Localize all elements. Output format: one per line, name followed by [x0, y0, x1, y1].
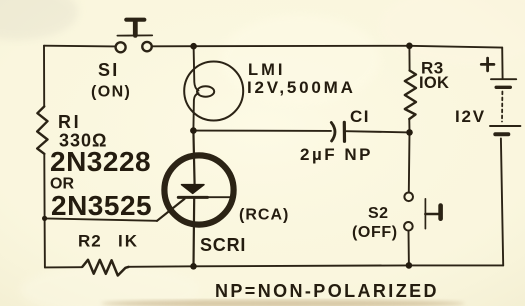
battery B1 plate 2 short thick: [496, 86, 510, 89]
wire: right rail top (corner to battery plus): [501, 48, 503, 79]
junction node: S2 / bottom rail: [406, 262, 413, 269]
resistor R3: [405, 71, 416, 120]
svg-text:SCRI: SCRI: [200, 235, 246, 255]
lamp LM1 envelope: [184, 62, 243, 121]
switch S1 bridge: [117, 34, 152, 36]
switch S2 bridge: [424, 199, 426, 229]
switch S1 right contact: [142, 42, 151, 51]
wire: gate to left rail: [45, 218, 157, 220]
wire: left rail lower: [43, 154, 46, 268]
switch S2 stem: [425, 213, 438, 216]
svg-text:(OFF): (OFF): [352, 224, 398, 241]
junction node: top lamp tap: [190, 43, 197, 50]
wire: cathode to bottom rail: [192, 197, 195, 266]
svg-text:I2V,500MA: I2V,500MA: [247, 78, 356, 97]
wire: bottom rail continued: [129, 265, 504, 266]
SCR1 gate lead: [157, 199, 185, 221]
wire: lamp branch upper: [194, 46, 199, 90]
wire: right rail bottom (battery minus to corner): [501, 139, 503, 266]
lamp LM1 filament loop: [197, 86, 214, 96]
svg-text:2N3228: 2N3228: [50, 146, 151, 177]
switch S2 cap: [438, 206, 443, 219]
junction node: SCR cathode / bottom rail: [190, 263, 197, 270]
svg-text:IK: IK: [118, 232, 139, 251]
svg-text:(ON): (ON): [91, 84, 131, 101]
battery B1 plate 1 long: [491, 78, 516, 80]
junction node: gate / left rail: [42, 216, 47, 221]
wire: S2 branch upper: [408, 132, 411, 192]
junction node: lamp / C1: [190, 127, 197, 134]
battery B1 plate 3 long: [490, 125, 520, 127]
switch S2 bottom contact: [404, 222, 413, 231]
junction node: C1 / R3 / S2: [406, 129, 413, 136]
wire: bottom rail: [45, 266, 82, 268]
svg-text:NP=NON-POLARIZED: NP=NON-POLARIZED: [215, 281, 439, 301]
svg-text:CI: CI: [350, 107, 370, 126]
switch S1 cap: [126, 18, 144, 22]
svg-text:R2: R2: [78, 232, 102, 251]
svg-text:IOK: IOK: [419, 74, 449, 92]
wire: C1 left segment: [193, 130, 331, 132]
wire: R3 branch bottom: [408, 119, 410, 132]
wire: R3 branch top: [408, 46, 410, 71]
wire: C1 right segment: [346, 131, 409, 132]
wire: S2 branch lower: [408, 231, 410, 266]
SCR1 envelope: [164, 155, 233, 224]
battery plus sign: [481, 58, 494, 71]
resistor R1: [37, 107, 47, 154]
svg-text:I2V: I2V: [455, 107, 486, 126]
svg-text:RI: RI: [58, 112, 81, 132]
wire: top rail left segment: [44, 45, 115, 48]
SCR1 anode triangle: [182, 185, 205, 194]
svg-text:SI: SI: [98, 60, 119, 80]
wire: left rail: [43, 46, 45, 107]
svg-text:(RCA): (RCA): [239, 207, 289, 224]
switch S1 stem: [133, 21, 138, 35]
wire: anode branch (C1 node to SCR): [193, 131, 194, 185]
switch S2 top contact: [404, 193, 413, 202]
junction node: top R3 tap: [406, 43, 413, 50]
paper shading bottom smudge: [101, 300, 465, 306]
capacitor C1 right plate: [343, 122, 346, 141]
svg-text:2µF NP: 2µF NP: [300, 145, 373, 164]
battery B1 plate 4 short thick: [495, 132, 508, 136]
SCR1 cathode bar: [178, 196, 207, 199]
svg-text:2N3525: 2N3525: [51, 190, 152, 221]
switch S1 left contact: [116, 42, 126, 52]
battery B1 dashed cell link: [501, 92, 503, 122]
wire: top rail right segment: [153, 46, 503, 48]
resistor R2: [83, 260, 129, 276]
capacitor C1 left curved plate: [331, 123, 335, 142]
wire: lamp branch lower: [193, 93, 198, 130]
svg-text:LMI: LMI: [248, 61, 285, 79]
svg-text:S2: S2: [368, 205, 389, 222]
